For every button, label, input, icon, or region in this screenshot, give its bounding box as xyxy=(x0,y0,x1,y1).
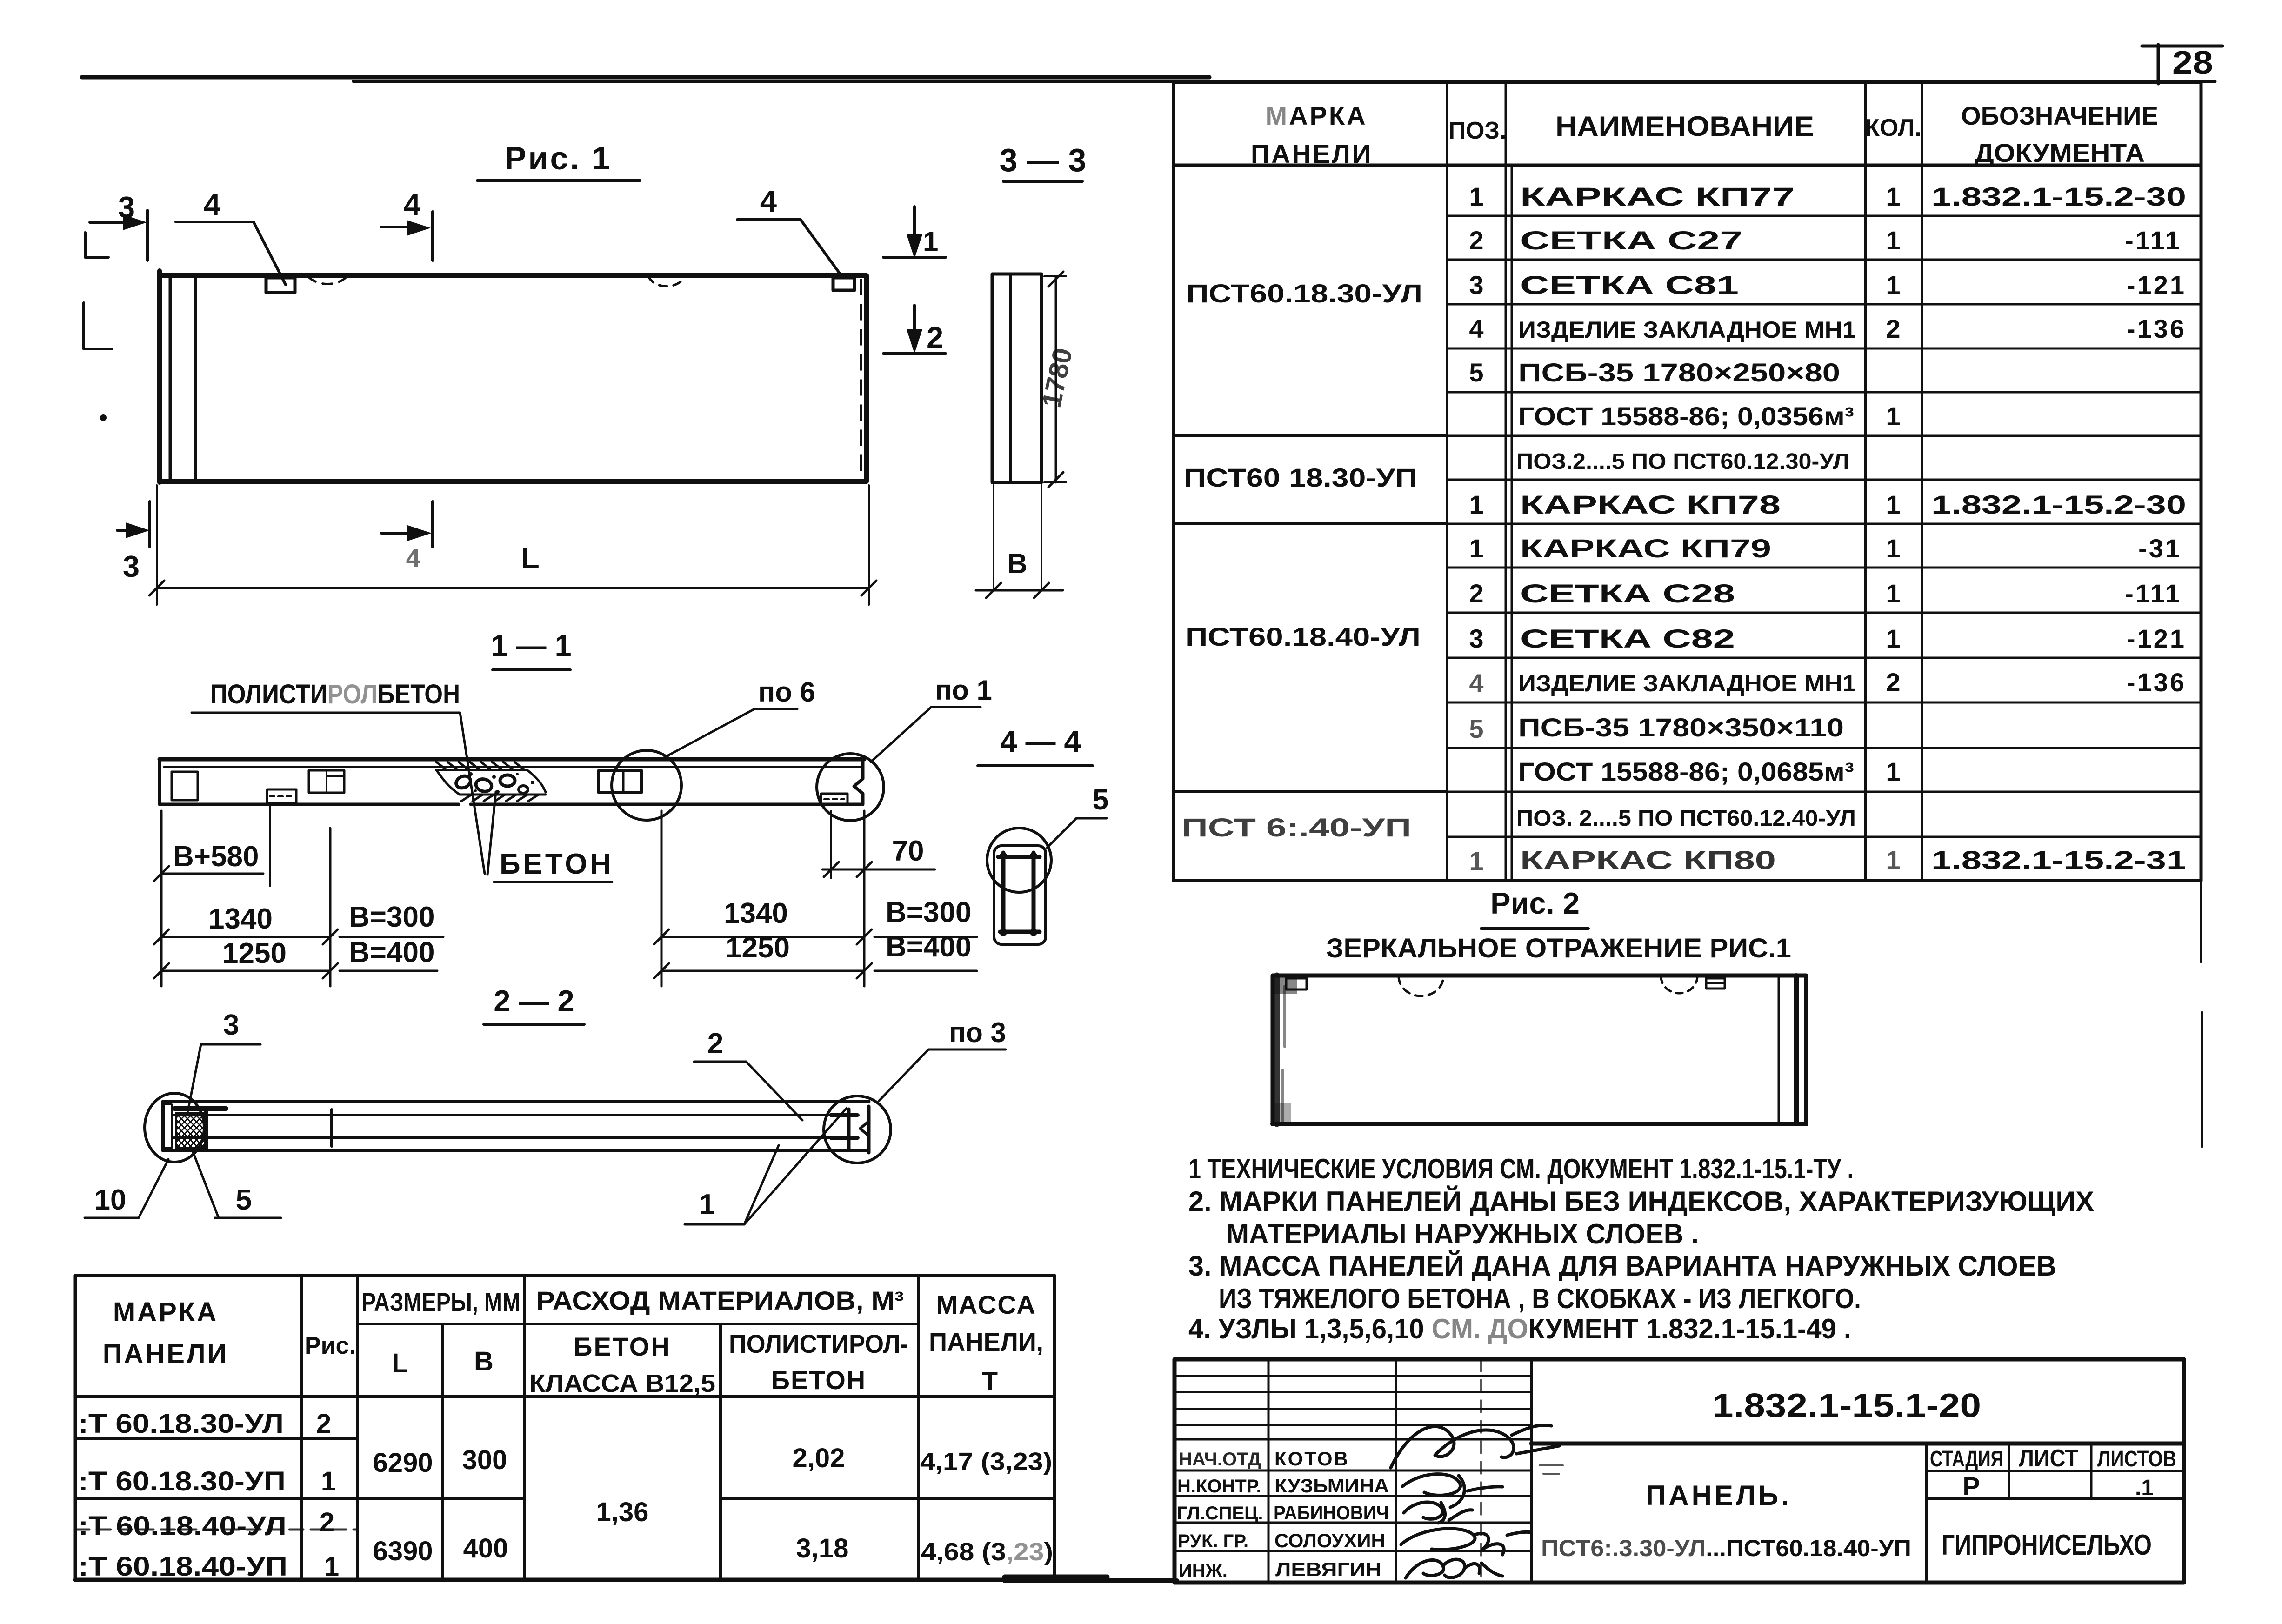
svg-text:1.832.1-15.2-31: 1.832.1-15.2-31 xyxy=(1931,845,2186,875)
svg-text:ПАНЕЛИ: ПАНЕЛИ xyxy=(1251,139,1373,168)
spec table row lines xyxy=(1447,216,2201,837)
svg-text:РАСХОД МАТЕРИАЛОВ, М³: РАСХОД МАТЕРИАЛОВ, М³ xyxy=(536,1286,904,1315)
svg-text:4: 4 xyxy=(204,187,220,221)
svg-text:ПОЛИСТИРОЛБЕТОН: ПОЛИСТИРОЛБЕТОН xyxy=(210,679,460,709)
sec2-2 left edge strip xyxy=(164,1104,172,1148)
detail circle po1 xyxy=(817,754,884,821)
svg-text:6390: 6390 xyxy=(373,1536,433,1566)
svg-text::Т 60.18.30-УП: :Т 60.18.30-УП xyxy=(78,1466,286,1497)
signature table blank rows xyxy=(1174,1376,1531,1425)
svg-text:Р: Р xyxy=(1962,1471,1980,1501)
svg-text:L: L xyxy=(521,541,540,575)
svg-text:1250: 1250 xyxy=(222,937,287,969)
panel end key profile xyxy=(854,759,863,804)
svg-text:МАССА: МАССА xyxy=(936,1290,1036,1319)
svg-text:СЕТКА С27: СЕТКА С27 xyxy=(1520,226,1742,255)
svg-text:СОЛОУХИН: СОЛОУХИН xyxy=(1274,1530,1385,1551)
svg-text:3: 3 xyxy=(1469,270,1483,300)
svg-text:КАРКАС КП78: КАРКАС КП78 xyxy=(1520,490,1781,519)
dimension 1780 xyxy=(1044,276,1066,482)
svg-text:4,68 (3,23): 4,68 (3,23) xyxy=(921,1538,1053,1566)
svg-text:1 — 1: 1 — 1 xyxy=(491,628,571,662)
concrete aggregate rings xyxy=(454,774,472,790)
fig2 left edge smear xyxy=(1274,976,1280,1124)
svg-text:КАРКАС КП77: КАРКАС КП77 xyxy=(1520,182,1795,211)
left table grid horizontals xyxy=(75,1276,1054,1397)
svg-text:6290: 6290 xyxy=(373,1448,433,1478)
svg-text:2: 2 xyxy=(320,1507,334,1537)
signature 1 xyxy=(1391,1425,1559,1468)
svg-text:4: 4 xyxy=(406,543,420,572)
svg-text:300: 300 xyxy=(462,1445,507,1475)
spec table column lines xyxy=(1447,82,1922,881)
svg-text:КОТОВ: КОТОВ xyxy=(1274,1448,1349,1470)
svg-text::Т 60.18.40-УЛ: :Т 60.18.40-УЛ xyxy=(78,1511,287,1541)
svg-text:ЛИСТ: ЛИСТ xyxy=(2019,1445,2078,1472)
svg-text:ИЗДЕЛИЕ ЗАКЛАДНОЕ МН1: ИЗДЕЛИЕ ЗАКЛАДНОЕ МН1 xyxy=(1518,317,1856,343)
fig2 mirrored panel outline xyxy=(1273,976,1806,1124)
svg-text:ПСТ60.18.30-УЛ: ПСТ60.18.30-УЛ xyxy=(1186,279,1422,308)
dimension B xyxy=(994,485,1041,590)
embedded item MN1 left xyxy=(266,278,295,293)
svg-text:-121: -121 xyxy=(2127,270,2186,300)
sec1-1 bar bottom edge xyxy=(160,803,861,806)
svg-text:5: 5 xyxy=(1469,358,1483,387)
svg-text:1340: 1340 xyxy=(208,903,273,935)
svg-text:ГОСТ 15588-86; 0,0685м³: ГОСТ 15588-86; 0,0685м³ xyxy=(1518,757,1854,786)
svg-text:3: 3 xyxy=(223,1009,239,1041)
svg-text:ПОЗ. 2....5 ПО ПСТ60.12.40-УЛ: ПОЗ. 2....5 ПО ПСТ60.12.40-УЛ xyxy=(1516,806,1856,831)
svg-text:В=400: В=400 xyxy=(886,931,971,963)
svg-text:28: 28 xyxy=(2172,44,2213,80)
svg-text:МАТЕРИАЛЫ НАРУЖНЫХ СЛОЕВ .: МАТЕРИАЛЫ НАРУЖНЫХ СЛОЕВ . xyxy=(1226,1218,1699,1250)
fig1 panel left end strips xyxy=(169,275,172,481)
sec1-1 bottom insert xyxy=(267,789,296,803)
svg-text:ПСБ-35 1780×250×80: ПСБ-35 1780×250×80 xyxy=(1518,358,1840,387)
svg-text:по 1: по 1 xyxy=(935,675,992,706)
signature 2 xyxy=(1402,1474,1502,1507)
svg-text:ГОСТ 15588-86; 0,0356м³: ГОСТ 15588-86; 0,0356м³ xyxy=(1518,401,1854,431)
svg-text:2. МАРКИ ПАНЕЛЕЙ ДАНЫ БЕЗ ИНДЕ: 2. МАРКИ ПАНЕЛЕЙ ДАНЫ БЕЗ ИНДЕКСОВ, ХАРА… xyxy=(1188,1186,2094,1217)
bottom border blob xyxy=(1005,1575,1107,1580)
signature 3 xyxy=(1404,1502,1472,1523)
spec table bottom xyxy=(1174,879,2201,882)
signature 4 xyxy=(1401,1529,1531,1555)
svg-text:1: 1 xyxy=(1886,845,1900,875)
spec table top and header lines xyxy=(1174,82,2201,165)
svg-text:2: 2 xyxy=(316,1409,331,1439)
svg-text:3,18: 3,18 xyxy=(796,1533,849,1564)
sec2-2 left end xyxy=(161,1102,165,1150)
svg-text:1: 1 xyxy=(699,1189,715,1221)
svg-text:5: 5 xyxy=(1469,714,1483,743)
svg-text:ЗЕРКАЛЬНОЕ ОТРАЖЕНИЕ РИС.1: ЗЕРКАЛЬНОЕ ОТРАЖЕНИЕ РИС.1 xyxy=(1326,933,1791,963)
svg-text::Т 60.18.30-УЛ: :Т 60.18.30-УЛ xyxy=(78,1409,284,1439)
lifting loop arc left xyxy=(308,276,347,284)
spec table outer verticals xyxy=(1174,82,2201,881)
svg-text:СЕТКА С82: СЕТКА С82 xyxy=(1520,624,1735,653)
svg-text:-121: -121 xyxy=(2127,624,2186,653)
svg-text:3. МАССА ПАНЕЛЕЙ ДАНА ДЛЯ ВАРИ: 3. МАССА ПАНЕЛЕЙ ДАНА ДЛЯ ВАРИАНТА НАРУЖ… xyxy=(1188,1250,2056,1282)
fig2 right end strips xyxy=(1778,976,1780,1124)
sec2-2 right end xyxy=(867,1106,871,1153)
svg-text:РАБИНОВИЧ: РАБИНОВИЧ xyxy=(1274,1502,1389,1524)
svg-text:СЕТКА С28: СЕТКА С28 xyxy=(1520,579,1735,608)
svg-text:КАРКАС КП79: КАРКАС КП79 xyxy=(1520,534,1771,563)
detail circle po6 xyxy=(612,750,681,820)
svg-text:2: 2 xyxy=(1469,579,1483,608)
signature table verticals xyxy=(1268,1359,1396,1583)
svg-text:В=400: В=400 xyxy=(349,936,434,969)
signature 5 xyxy=(1406,1559,1502,1578)
corner mark lower left xyxy=(84,303,112,349)
svg-text:-136: -136 xyxy=(2127,314,2186,343)
svg-text:ИЗДЕЛИЕ ЗАКЛАДНОЕ МН1: ИЗДЕЛИЕ ЗАКЛАДНОЕ МН1 xyxy=(1518,670,1856,696)
svg-text:1: 1 xyxy=(923,226,938,257)
svg-text:МАРКА: МАРКА xyxy=(113,1297,218,1327)
fig2 lifting loop arcs xyxy=(1399,976,1443,996)
svg-text:по 3: по 3 xyxy=(949,1017,1006,1048)
svg-text:ИНЖ.: ИНЖ. xyxy=(1179,1561,1228,1581)
svg-text:3 — 3: 3 — 3 xyxy=(1000,142,1087,178)
svg-text:-111: -111 xyxy=(2125,226,2182,255)
svg-text:1: 1 xyxy=(1886,579,1900,608)
svg-text:Т: Т xyxy=(982,1366,998,1396)
svg-text:1340: 1340 xyxy=(724,897,788,929)
svg-text:5: 5 xyxy=(236,1184,252,1216)
po6 insert box xyxy=(599,770,641,793)
sec1-1 box insert xyxy=(309,770,344,793)
sec1-1 left notch xyxy=(172,772,198,800)
section cut mark 1 xyxy=(913,207,916,246)
svg-text:1.832.1-15.1-20: 1.832.1-15.1-20 xyxy=(1712,1387,1981,1424)
embedded item MN1 right xyxy=(833,278,854,290)
svg-text:КЛАССА В12,5: КЛАССА В12,5 xyxy=(529,1370,715,1397)
sec1-1 bar top edge xyxy=(160,757,864,762)
svg-text:ПАНЕЛЬ.: ПАНЕЛЬ. xyxy=(1646,1480,1792,1511)
svg-text:КОЛ.: КОЛ. xyxy=(1865,114,1922,141)
svg-text:ГИПРОНИСЕЛЬХО: ГИПРОНИСЕЛЬХО xyxy=(1942,1529,2152,1561)
svg-text:1: 1 xyxy=(1469,490,1483,519)
svg-text:Рис.: Рис. xyxy=(305,1332,356,1359)
svg-text:-31: -31 xyxy=(2138,534,2182,563)
svg-text:400: 400 xyxy=(463,1533,508,1564)
svg-text:2,02: 2,02 xyxy=(793,1443,845,1473)
sheet top border line xyxy=(82,75,1209,80)
svg-text:3: 3 xyxy=(1469,624,1483,653)
sec2-2 middle tie xyxy=(330,1109,333,1146)
concrete bottom band xyxy=(460,795,546,801)
svg-text:РУК. ГР.: РУК. ГР. xyxy=(1178,1531,1248,1551)
svg-text:10: 10 xyxy=(94,1184,127,1216)
section cut mark 4 bottom xyxy=(431,501,434,547)
svg-text:В=300: В=300 xyxy=(886,896,971,929)
svg-text:2: 2 xyxy=(1886,668,1900,697)
svg-text:КАРКАС КП80: КАРКАС КП80 xyxy=(1520,845,1776,875)
line under document number xyxy=(1531,1442,2184,1446)
svg-text:ПСТ 6:.40-УП: ПСТ 6:.40-УП xyxy=(1181,813,1411,842)
svg-text:3: 3 xyxy=(123,549,140,583)
svg-text:Рис. 2: Рис. 2 xyxy=(1490,886,1580,920)
svg-text:по 6: по 6 xyxy=(758,676,815,708)
svg-text:ПСБ-35 1780×350×110: ПСБ-35 1780×350×110 xyxy=(1518,713,1844,742)
left dimension group xyxy=(160,811,163,986)
svg-text:ПАНЕЛИ,: ПАНЕЛИ, xyxy=(929,1327,1043,1357)
fig2 embedded item left xyxy=(1286,978,1307,989)
title block outer frame xyxy=(1174,1359,2184,1583)
svg-text:2 — 2: 2 — 2 xyxy=(494,984,574,1018)
svg-text:1.832.1-15.2-30: 1.832.1-15.2-30 xyxy=(1931,490,2186,519)
detail 4-4 circle xyxy=(987,828,1051,892)
left table grid verticals xyxy=(75,1276,1054,1580)
sec1-1 bar left end xyxy=(158,759,161,804)
svg-text:НАЧ.ОТД: НАЧ.ОТД xyxy=(1179,1449,1261,1470)
fig1 panel right dashed line xyxy=(860,280,862,478)
bottom border extension left xyxy=(1005,1578,1177,1583)
svg-text:2: 2 xyxy=(1469,226,1483,255)
svg-text:4. УЗЛЫ 1,3,5,6,10 СМ. ДОКУМЕН: 4. УЗЛЫ 1,3,5,6,10 СМ. ДОКУМЕНТ 1.832.1-… xyxy=(1188,1313,1851,1344)
svg-text:2: 2 xyxy=(707,1028,723,1060)
svg-text:В: В xyxy=(1007,548,1027,579)
svg-text:ГЛ.СПЕЦ.: ГЛ.СПЕЦ. xyxy=(1177,1503,1263,1524)
svg-text:1,36: 1,36 xyxy=(596,1497,649,1527)
svg-text:1: 1 xyxy=(1886,226,1900,255)
svg-text:1: 1 xyxy=(1886,270,1900,300)
svg-text:2: 2 xyxy=(927,321,943,354)
sec2-2 bar inner mesh lines xyxy=(174,1115,858,1138)
po1 end insert xyxy=(821,794,847,805)
svg-text::Т 60.18.40-УП: :Т 60.18.40-УП xyxy=(78,1551,287,1582)
svg-text:СЕТКА С81: СЕТКА С81 xyxy=(1520,270,1739,300)
svg-text:ПОЗ.2....5 ПО ПСТ60.12.30-УЛ: ПОЗ.2....5 ПО ПСТ60.12.30-УЛ xyxy=(1516,449,1849,474)
spec table marka group lines xyxy=(1174,436,1447,792)
svg-text:В+580: В+580 xyxy=(173,841,259,873)
svg-text:5: 5 xyxy=(1093,784,1108,816)
sec2-2 bar outer lines xyxy=(163,1102,869,1150)
svg-text:70: 70 xyxy=(892,835,924,867)
svg-text:1250: 1250 xyxy=(726,932,790,964)
svg-text:1: 1 xyxy=(1886,534,1900,563)
svg-text:ИЗ ТЯЖЕЛОГО БЕТОНА , В СКОБКАХ: ИЗ ТЯЖЕЛОГО БЕТОНА , В СКОБКАХ - ИЗ ЛЕГК… xyxy=(1219,1283,1861,1314)
svg-text:В=300: В=300 xyxy=(349,901,434,933)
svg-text:1: 1 xyxy=(1886,401,1900,431)
svg-text:.1: .1 xyxy=(2135,1476,2154,1500)
concrete patch outline xyxy=(436,770,546,795)
svg-text:ПСТ6:.3.30-УЛ...ПСТ60.18.40-УП: ПСТ6:.3.30-УЛ...ПСТ60.18.40-УП xyxy=(1541,1535,1911,1561)
svg-text:БЕТОН: БЕТОН xyxy=(574,1332,671,1361)
svg-text:ПСТ60.18.40-УЛ: ПСТ60.18.40-УЛ xyxy=(1185,622,1421,651)
svg-text:1: 1 xyxy=(1886,182,1900,211)
concrete hatch top band xyxy=(436,762,526,770)
svg-text:1: 1 xyxy=(1886,624,1900,653)
svg-text:БЕТОН: БЕТОН xyxy=(500,848,614,880)
svg-text:4: 4 xyxy=(760,184,777,218)
dimension L xyxy=(157,485,869,605)
svg-text:4: 4 xyxy=(404,187,420,221)
fig1 panel outline xyxy=(160,275,867,481)
sec2-2 end tie xyxy=(847,1109,851,1149)
svg-text:1.832.1-15.2-30: 1.832.1-15.2-30 xyxy=(1931,182,2186,211)
svg-text:Рис. 1: Рис. 1 xyxy=(505,140,612,176)
svg-text:В: В xyxy=(474,1346,494,1377)
svg-text:1: 1 xyxy=(321,1466,336,1497)
svg-text:-111: -111 xyxy=(2125,579,2182,608)
svg-text:4: 4 xyxy=(1469,314,1483,343)
right dimension group xyxy=(661,811,663,986)
svg-text:ЛИСТОВ: ЛИСТОВ xyxy=(2097,1447,2176,1471)
svg-text:1: 1 xyxy=(1469,846,1483,875)
svg-text:НАИМЕНОВАНИЕ: НАИМЕНОВАНИЕ xyxy=(1555,111,1814,142)
svg-text:КУЗЬМИНА: КУЗЬМИНА xyxy=(1274,1475,1389,1497)
svg-text:Н.КОНТР.: Н.КОНТР. xyxy=(1177,1476,1261,1497)
section cut mark 2 xyxy=(913,305,916,341)
svg-text:1: 1 xyxy=(324,1551,339,1582)
svg-text:1: 1 xyxy=(1886,490,1900,519)
detail 4-4 outer sleeve xyxy=(994,846,1046,944)
svg-text:-136: -136 xyxy=(2127,668,2186,697)
svg-text:ПСТ60 18.30-УП: ПСТ60 18.30-УП xyxy=(1184,463,1417,492)
svg-text:РАЗМЕРЫ, ММ: РАЗМЕРЫ, ММ xyxy=(361,1287,520,1317)
right border faded dashes xyxy=(2201,881,2202,1147)
svg-text:ОБОЗНАЧЕНИЕ: ОБОЗНАЧЕНИЕ xyxy=(1961,101,2158,130)
svg-text:1: 1 xyxy=(1469,182,1483,211)
detail circle right xyxy=(824,1096,891,1163)
stadia list listov box xyxy=(1925,1444,1928,1583)
svg-text:4 — 4: 4 — 4 xyxy=(1000,724,1081,758)
svg-text:1: 1 xyxy=(1886,757,1900,786)
section cut mark 3 bottom xyxy=(148,501,151,547)
svg-text:4: 4 xyxy=(1469,668,1483,698)
fig2 embedded item right xyxy=(1706,978,1725,989)
svg-text:ПАНЕЛИ: ПАНЕЛИ xyxy=(103,1339,229,1369)
svg-text:1: 1 xyxy=(1469,534,1483,563)
svg-text:СТАДИЯ: СТАДИЯ xyxy=(1930,1447,2003,1471)
stray dot xyxy=(100,414,107,421)
svg-text:2: 2 xyxy=(1886,314,1900,343)
svg-text:ПОЛИСТИРОЛ-: ПОЛИСТИРОЛ- xyxy=(729,1329,908,1358)
svg-text:МАРКА: МАРКА xyxy=(1265,101,1367,130)
svg-text:ПОЗ.: ПОЗ. xyxy=(1448,117,1507,144)
svg-text:L: L xyxy=(392,1348,408,1378)
svg-text:ДОКУМЕНТА: ДОКУМЕНТА xyxy=(1975,138,2145,167)
svg-text:1 ТЕХНИЧЕСКИЕ УСЛОВИЯ СМ. ДОКУ: 1 ТЕХНИЧЕСКИЕ УСЛОВИЯ СМ. ДОКУМЕНТ 1.832… xyxy=(1188,1153,1854,1184)
signature table name rows xyxy=(1174,1470,1531,1551)
svg-text:БЕТОН: БЕТОН xyxy=(771,1365,866,1395)
svg-text:4,17 (3,23): 4,17 (3,23) xyxy=(920,1448,1052,1476)
section 3-3 panel view xyxy=(992,274,1041,482)
page number box xyxy=(2142,45,2222,84)
lifting loop arc right xyxy=(648,276,685,286)
detail 4-4 loop bar xyxy=(998,853,1040,934)
detail circle left xyxy=(145,1093,204,1162)
svg-text:ЛЕВЯГИН: ЛЕВЯГИН xyxy=(1275,1558,1381,1580)
